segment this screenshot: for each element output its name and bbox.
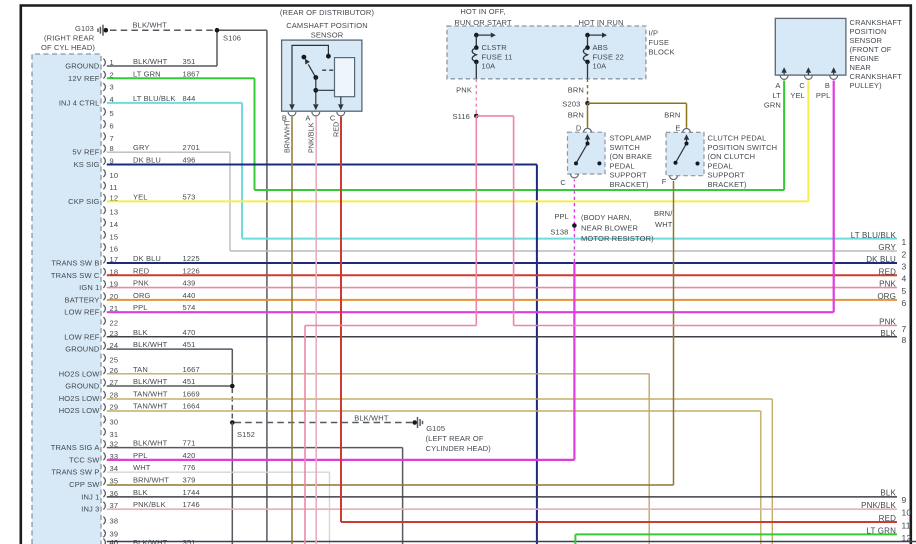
svg-text:POSITION: POSITION (850, 27, 887, 36)
svg-text:(RIGHT REAR: (RIGHT REAR (44, 34, 95, 43)
svg-text:PNK/BLK: PNK/BLK (861, 501, 896, 510)
svg-text:CYLINDER HEAD): CYLINDER HEAD) (426, 444, 492, 453)
crankshaft pin A (780, 76, 788, 80)
wire BRN S203 to stoplamp D (587, 103, 589, 128)
svg-text:BLK/WHT: BLK/WHT (354, 414, 389, 423)
camshaft pin B (288, 112, 296, 116)
camshaft hall element (335, 58, 355, 97)
svg-text:NEAR BLOWER: NEAR BLOWER (581, 224, 639, 233)
svg-text:30: 30 (110, 418, 119, 427)
wire pin18 RED 1226 exit 4 (107, 274, 897, 276)
svg-text:TRANS SW B: TRANS SW B (51, 259, 99, 268)
svg-text:(LEFT REAR OF: (LEFT REAR OF (426, 434, 484, 443)
svg-text:CKP SIG: CKP SIG (68, 197, 99, 206)
svg-text:SUPPORT: SUPPORT (610, 171, 647, 180)
svg-text:BRN/WHT: BRN/WHT (133, 476, 169, 485)
svg-text:776: 776 (183, 463, 196, 472)
PCM pin 21 (103, 305, 105, 313)
svg-text:S203: S203 (562, 99, 580, 108)
svg-text:G105: G105 (426, 424, 445, 433)
svg-text:PNK: PNK (879, 318, 896, 327)
svg-text:C: C (799, 81, 805, 90)
svg-text:TAN/WHT: TAN/WHT (133, 389, 168, 398)
svg-text:BLK: BLK (880, 489, 896, 498)
svg-text:4: 4 (902, 274, 907, 284)
svg-text:S138: S138 (550, 228, 568, 237)
svg-text:1746: 1746 (183, 500, 200, 509)
svg-text:YEL: YEL (133, 192, 148, 201)
PCM pin 39 (103, 530, 105, 538)
wire pin20 ORG 440 exit 6 (107, 299, 897, 301)
stoplamp switch blade (576, 144, 588, 164)
wire camshaft C RED to exit 11 (340, 117, 342, 522)
svg-text:1225: 1225 (183, 254, 200, 263)
svg-text:HO2S LOW: HO2S LOW (59, 394, 101, 403)
svg-text:SENSOR: SENSOR (311, 30, 344, 39)
wire BLK/WHT dashed G103-S106 (110, 29, 217, 31)
PCM pin 40 (103, 539, 105, 544)
PCM pin 32 (103, 440, 105, 448)
PCM pin 13 (103, 206, 105, 214)
PCM pin 10 (103, 169, 105, 177)
svg-text:INJ 3: INJ 3 (81, 505, 99, 514)
svg-text:GROUND: GROUND (65, 345, 100, 354)
svg-text:844: 844 (183, 94, 196, 103)
svg-text:ORG: ORG (877, 292, 896, 301)
svg-text:(BODY HARN,: (BODY HARN, (581, 213, 632, 222)
svg-text:35: 35 (110, 477, 119, 486)
PCM pin 22 (103, 317, 105, 325)
wire pin28 TAN/WHT 1669 (107, 398, 773, 400)
PCM pin 12 (103, 194, 105, 202)
svg-text:TAN: TAN (133, 365, 148, 374)
svg-text:LT BLU/BLK: LT BLU/BLK (851, 231, 897, 240)
svg-text:INJ 4 CTRL: INJ 4 CTRL (59, 98, 100, 107)
svg-text:RED: RED (133, 266, 150, 275)
svg-text:16: 16 (110, 245, 119, 254)
svg-text:IGN 1: IGN 1 (79, 283, 99, 292)
wire pin24 BLK/WHT 451 (107, 348, 233, 350)
svg-text:WHT: WHT (655, 220, 673, 229)
wire camshaft B BRN/WHT (291, 117, 293, 544)
PCM pin 4 (103, 96, 105, 104)
ground G105 (412, 420, 417, 425)
wire pin34 WHT 776 (107, 471, 330, 473)
svg-text:BLOCK: BLOCK (649, 48, 675, 57)
svg-text:DK BLU: DK BLU (133, 254, 161, 263)
crankshaft pin B (830, 76, 838, 80)
svg-text:I/P: I/P (649, 29, 659, 38)
svg-text:MOTOR RESISTOR): MOTOR RESISTOR) (581, 234, 654, 243)
svg-text:BLK/WHT: BLK/WHT (133, 57, 168, 66)
splice S203 (585, 101, 590, 106)
svg-text:B: B (825, 81, 830, 90)
svg-text:INJ 1: INJ 1 (81, 492, 99, 501)
svg-text:771: 771 (183, 439, 196, 448)
svg-text:FUSE 11: FUSE 11 (482, 52, 513, 61)
PCM pin 2 (103, 71, 105, 79)
svg-text:PNK/BLK: PNK/BLK (306, 122, 315, 153)
PCM pin 23 (103, 329, 105, 337)
wire pin12 YEL 573 to crankshaft pin C (107, 200, 809, 202)
svg-text:11: 11 (110, 183, 118, 192)
svg-text:CRANKSHAFT: CRANKSHAFT (850, 72, 903, 81)
svg-text:SUPPORT: SUPPORT (708, 171, 745, 180)
svg-text:S152: S152 (237, 430, 255, 439)
svg-text:RED: RED (879, 514, 896, 523)
svg-text:1867: 1867 (183, 69, 200, 78)
PCM pin 33 (103, 453, 105, 461)
svg-text:9: 9 (902, 495, 907, 505)
PCM pin 6 (103, 120, 105, 128)
PCM pin 9 (103, 157, 105, 165)
wire pin9 DK BLU 496 (107, 164, 537, 166)
svg-text:A: A (305, 114, 310, 123)
PCM pin 1 (103, 59, 105, 67)
svg-text:BLK/WHT: BLK/WHT (133, 377, 168, 386)
svg-text:(REAR OF DISTRIBUTOR): (REAR OF DISTRIBUTOR) (280, 8, 375, 17)
PCM pin 29 (103, 403, 105, 411)
svg-text:2701: 2701 (183, 143, 200, 152)
camshaft pin C (337, 112, 345, 116)
svg-text:LT BLU/BLK: LT BLU/BLK (133, 94, 176, 103)
svg-text:5: 5 (110, 109, 114, 118)
svg-text:S116: S116 (452, 112, 470, 121)
wire BRN from ABS fuse to S203 (587, 79, 589, 101)
svg-text:12: 12 (902, 533, 912, 543)
svg-text:38: 38 (110, 517, 119, 526)
svg-text:BLK/WHT: BLK/WHT (133, 340, 168, 349)
svg-text:LT: LT (773, 91, 782, 100)
svg-text:RUN OR START: RUN OR START (454, 18, 512, 27)
stoplamp pin C (571, 174, 579, 178)
splice S106 (215, 28, 220, 33)
svg-text:5: 5 (902, 286, 907, 296)
svg-text:10: 10 (110, 171, 119, 180)
svg-text:6: 6 (902, 298, 907, 308)
svg-text:A: A (775, 81, 780, 90)
svg-text:351: 351 (183, 57, 196, 66)
svg-text:6: 6 (110, 122, 114, 131)
PCM pin 25 (103, 354, 105, 362)
svg-text:BLK: BLK (133, 328, 148, 337)
svg-text:GROUND: GROUND (65, 382, 100, 391)
PCM pin 27 (103, 379, 105, 387)
svg-text:SWITCH: SWITCH (610, 143, 640, 152)
svg-text:PPL: PPL (133, 451, 148, 460)
svg-text:PPL: PPL (816, 91, 831, 100)
svg-text:TRANS SIG A: TRANS SIG A (51, 443, 100, 452)
stoplamp pin D (584, 128, 592, 132)
svg-text:C: C (560, 178, 566, 187)
PCM pin 24 (103, 342, 105, 350)
svg-text:GROUND: GROUND (65, 62, 100, 71)
svg-text:BRN: BRN (568, 86, 584, 95)
svg-text:PNK: PNK (133, 279, 149, 288)
camshaft internal circuit (292, 45, 328, 104)
stoplamp switch (dashed box) (568, 132, 606, 174)
svg-text:BLK: BLK (880, 329, 896, 338)
svg-text:CRANKSHAFT: CRANKSHAFT (850, 18, 903, 27)
svg-text:574: 574 (183, 303, 196, 312)
wire S106 to distributor shield (217, 29, 267, 31)
svg-text:LOW REF: LOW REF (64, 332, 99, 341)
svg-text:573: 573 (183, 192, 196, 201)
svg-text:SENSOR: SENSOR (850, 36, 883, 45)
svg-text:496: 496 (183, 156, 196, 165)
PCM pin 18 (103, 268, 105, 276)
svg-text:STOPLAMP: STOPLAMP (610, 134, 652, 143)
wire pin17 DK BLU 1225 exit 3 (107, 262, 897, 264)
svg-text:14: 14 (110, 220, 119, 229)
svg-text:NEAR: NEAR (850, 63, 872, 72)
svg-text:HOT IN OFF,: HOT IN OFF, (460, 7, 505, 16)
svg-text:439: 439 (183, 279, 196, 288)
wire pin32 BLK/WHT 771 (107, 447, 403, 449)
PCM pin 16 (103, 243, 105, 251)
svg-text:BLK/WHT: BLK/WHT (133, 439, 168, 448)
svg-text:BRN/WHT: BRN/WHT (283, 119, 292, 153)
svg-text:(FRONT OF: (FRONT OF (850, 45, 892, 54)
svg-text:10A: 10A (593, 62, 607, 71)
crankshaft position sensor box (775, 18, 846, 75)
clutch pin E (683, 128, 691, 132)
svg-text:13: 13 (110, 208, 119, 217)
svg-text:OF CYL HEAD): OF CYL HEAD) (41, 43, 95, 52)
wire pin8 GRY 2701 to right exit 2 (107, 151, 230, 153)
svg-text:BLK: BLK (133, 488, 148, 497)
svg-text:RED: RED (331, 122, 340, 137)
PCM pin 17 (103, 256, 105, 264)
svg-text:379: 379 (183, 476, 196, 485)
svg-text:PPL: PPL (554, 212, 569, 221)
svg-text:451: 451 (183, 340, 196, 349)
svg-text:HO2S LOW: HO2S LOW (59, 369, 101, 378)
PCM pin 15 (103, 231, 105, 239)
svg-text:ABS: ABS (593, 43, 608, 52)
wire PNK S116 down-left branch (475, 116, 477, 326)
svg-text:G103: G103 (75, 24, 94, 33)
PCM pin 20 (103, 293, 105, 301)
svg-text:(ON BRAKE: (ON BRAKE (610, 152, 653, 161)
wire pin33 PPL 420 to S138 (107, 459, 575, 461)
crankshaft pin C (805, 76, 813, 80)
svg-text:22: 22 (110, 319, 119, 328)
PCM pin 31 (103, 428, 105, 436)
PCM pin 7 (103, 133, 105, 141)
svg-text:BRN: BRN (664, 110, 680, 119)
svg-text:BRACKET): BRACKET) (610, 180, 649, 189)
wire pin27 BLK/WHT 451 (107, 385, 233, 387)
svg-text:8: 8 (902, 335, 907, 345)
svg-text:31: 31 (110, 430, 119, 439)
svg-text:CAMSHAFT POSITION: CAMSHAFT POSITION (286, 21, 368, 30)
svg-text:7: 7 (110, 134, 114, 143)
svg-text:1669: 1669 (183, 389, 200, 398)
svg-text:F: F (662, 177, 667, 186)
PCM pin 5 (103, 108, 105, 116)
svg-text:2: 2 (902, 250, 907, 260)
svg-text:10A: 10A (482, 62, 496, 71)
svg-text:PEDAL: PEDAL (610, 161, 635, 170)
svg-text:GRY: GRY (133, 143, 150, 152)
splice S152 (230, 420, 235, 425)
svg-text:TCC SW: TCC SW (69, 455, 100, 464)
svg-text:7: 7 (902, 324, 907, 334)
svg-text:HOT IN RUN: HOT IN RUN (578, 18, 623, 27)
PCM pin 28 (103, 391, 105, 399)
wire pin26 TAN 1667 (107, 373, 649, 375)
svg-text:BRN: BRN (568, 110, 584, 119)
svg-text:LT GRN: LT GRN (133, 69, 161, 78)
splice S138 (572, 223, 577, 228)
wire BLK/WHT S152 continues down (231, 423, 233, 544)
wire pin4 LT BLU/BLK 844 to right exit 1 (107, 102, 242, 104)
camshaft pin A (312, 112, 320, 116)
svg-text:5V REF: 5V REF (72, 148, 99, 157)
PCM pin 30 (103, 416, 105, 424)
wire pin36 BLK 1744 exit 9 (107, 496, 897, 498)
svg-text:1: 1 (902, 237, 907, 247)
svg-text:S106: S106 (223, 34, 241, 43)
PCM pin 14 (103, 219, 105, 227)
svg-text:FUSE: FUSE (649, 38, 670, 47)
svg-text:BATTERY: BATTERY (65, 295, 100, 304)
clutch fixed contact (696, 162, 700, 166)
svg-text:BRN/: BRN/ (654, 209, 673, 218)
wire pin19 PNK 439 exit 5 (107, 287, 897, 289)
svg-text:ENGINE: ENGINE (850, 54, 880, 63)
svg-text:3: 3 (902, 261, 907, 271)
svg-text:LOW REF: LOW REF (64, 308, 99, 317)
svg-text:BRACKET): BRACKET) (708, 180, 747, 189)
wire pin21 PPL 574 to crankshaft pin B (107, 311, 834, 313)
svg-text:1664: 1664 (183, 402, 200, 411)
wire PNK S116 right branch to exit 7 (476, 115, 513, 117)
PCM pin 38 (103, 517, 105, 525)
wire pin2 LT GRN 1867 to crankshaft pin A (107, 77, 255, 79)
svg-text:CLSTR: CLSTR (482, 43, 508, 52)
stoplamp fixed contact (597, 161, 601, 165)
wire S106 riser (216, 30, 218, 66)
splice S116 (474, 114, 479, 119)
svg-text:POSITION SWITCH: POSITION SWITCH (708, 143, 778, 152)
wire pin40 BLK/WHT 351 bottom (107, 541, 916, 543)
svg-text:LT GRN: LT GRN (867, 527, 897, 536)
svg-text:TRANS SW P: TRANS SW P (51, 468, 99, 477)
wire BRN S203 to clutch E (588, 102, 687, 104)
svg-text:(ON CLUTCH: (ON CLUTCH (708, 152, 756, 161)
PCM pin 11 (103, 182, 105, 190)
svg-text:FUSE 22: FUSE 22 (593, 52, 624, 61)
svg-text:3: 3 (110, 83, 114, 92)
PCM pin 3 (103, 83, 105, 91)
PCM connector C1 (dashed blue box) (32, 54, 101, 544)
svg-text:10: 10 (902, 507, 912, 517)
ground G103 (104, 28, 109, 33)
svg-text:C: C (330, 114, 336, 123)
wire pin29 TAN/WHT 1664 (107, 410, 761, 412)
svg-text:PPL: PPL (133, 303, 148, 312)
PCM pin 19 (103, 280, 105, 288)
svg-text:DK BLU: DK BLU (133, 156, 161, 165)
fuse CLSTR FUSE 11 (474, 33, 479, 38)
svg-text:TAN/WHT: TAN/WHT (133, 402, 168, 411)
svg-text:12V REF: 12V REF (68, 74, 100, 83)
svg-text:WHT: WHT (133, 463, 151, 472)
clutch pin F (670, 176, 678, 180)
svg-text:GRN: GRN (764, 101, 781, 110)
junction pin24/pin27 grounds (230, 384, 235, 389)
wire pin23 BLK 470 exit 8 (107, 336, 897, 338)
svg-text:CLUTCH PEDAL: CLUTCH PEDAL (708, 134, 767, 143)
svg-text:RED: RED (879, 267, 896, 276)
svg-text:PNK: PNK (456, 86, 472, 95)
svg-text:BLK/WHT: BLK/WHT (133, 21, 168, 30)
clutch pedal position switch (dashed box) (666, 132, 704, 175)
svg-text:PULLEY): PULLEY) (850, 81, 883, 90)
svg-text:DK BLU: DK BLU (866, 255, 896, 264)
svg-text:25: 25 (110, 355, 119, 364)
PCM pin 34 (103, 465, 105, 473)
svg-text:PNK/BLK: PNK/BLK (133, 500, 166, 509)
svg-text:GRY: GRY (878, 243, 896, 252)
svg-text:ORG: ORG (133, 291, 151, 300)
wire BLK/WHT shield vertical (266, 30, 268, 541)
PCM pin 36 (103, 490, 105, 498)
svg-text:11: 11 (902, 521, 911, 531)
svg-text:D: D (576, 124, 582, 133)
svg-text:28: 28 (110, 390, 119, 399)
svg-text:15: 15 (110, 232, 119, 241)
svg-text:PNK: PNK (879, 280, 896, 289)
wire dashed to S152 (231, 388, 233, 420)
wire BLK/WHT dashed S152 to G105 (235, 422, 413, 424)
wire camshaft A PNK/BLK (315, 117, 317, 544)
svg-text:1226: 1226 (183, 266, 200, 275)
svg-text:E: E (675, 124, 680, 133)
wire pin37 PNK/BLK 1746 exit 10 (107, 508, 897, 510)
clutch switch blade (676, 144, 687, 163)
svg-text:HO2S LOW: HO2S LOW (59, 406, 101, 415)
camshaft position sensor box (282, 40, 362, 111)
PCM pin 8 (103, 145, 105, 153)
PCM pin 37 (103, 502, 105, 510)
svg-text:1744: 1744 (183, 488, 200, 497)
wire pin35 BRN/WHT 379 to clutch switch F (107, 484, 674, 486)
PCM pin 35 (103, 477, 105, 485)
svg-text:YEL: YEL (790, 91, 805, 100)
svg-text:420: 420 (183, 451, 196, 460)
svg-text:TRANS SW C: TRANS SW C (51, 271, 100, 280)
svg-text:470: 470 (183, 328, 196, 337)
wire LT GRN exit 12 (574, 534, 576, 544)
svg-text:1667: 1667 (183, 365, 200, 374)
svg-text:PEDAL: PEDAL (708, 161, 733, 170)
wire PNK from CLSTR fuse to S116 (475, 79, 477, 113)
svg-text:451: 451 (183, 377, 196, 386)
I/P fuse block (dashed blue box) (447, 26, 646, 79)
svg-text:KS SIG: KS SIG (74, 160, 100, 169)
svg-text:440: 440 (183, 291, 196, 300)
wire pin1 BLK/WHT 351 (107, 65, 217, 67)
PCM pin 26 (103, 366, 105, 374)
fuse ABS FUSE 22 (585, 33, 590, 38)
svg-text:CPP SW: CPP SW (69, 480, 100, 489)
